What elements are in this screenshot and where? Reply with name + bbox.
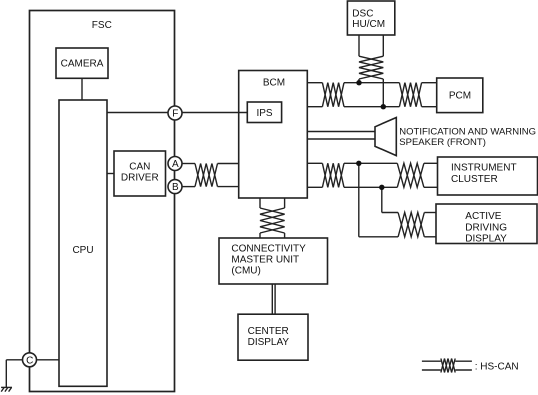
svg-text:BCM: BCM xyxy=(263,78,285,89)
svg-text:PCM: PCM xyxy=(449,91,471,102)
svg-text:A: A xyxy=(172,159,179,170)
svg-text:DRIVER: DRIVER xyxy=(121,173,159,184)
svg-text:CAMERA: CAMERA xyxy=(61,59,104,70)
svg-text:DISPLAY: DISPLAY xyxy=(465,234,507,245)
svg-text:CPU: CPU xyxy=(72,245,93,256)
svg-text:B: B xyxy=(172,182,179,193)
svg-text:CONNECTIVITY: CONNECTIVITY xyxy=(231,244,306,255)
svg-text:HU/CM: HU/CM xyxy=(352,19,385,30)
svg-text:DRIVING: DRIVING xyxy=(465,222,507,233)
svg-text:DISPLAY: DISPLAY xyxy=(248,337,290,348)
svg-text:CLUSTER: CLUSTER xyxy=(451,174,498,185)
svg-text:INSTRUMENT: INSTRUMENT xyxy=(451,162,517,173)
svg-text:SPEAKER (FRONT): SPEAKER (FRONT) xyxy=(399,137,486,148)
svg-text:: HS-CAN: : HS-CAN xyxy=(475,362,519,373)
svg-text:IPS: IPS xyxy=(256,108,272,119)
svg-text:(CMU): (CMU) xyxy=(231,266,260,277)
svg-text:CAN: CAN xyxy=(129,162,150,173)
svg-text:ACTIVE: ACTIVE xyxy=(465,211,501,222)
svg-text:DSC: DSC xyxy=(352,9,373,20)
svg-text:NOTIFICATION AND WARNING: NOTIFICATION AND WARNING xyxy=(399,127,536,138)
svg-text:CENTER: CENTER xyxy=(248,326,289,337)
svg-text:F: F xyxy=(172,109,178,120)
svg-text:C: C xyxy=(26,355,33,366)
svg-text:MASTER UNIT: MASTER UNIT xyxy=(231,255,299,266)
svg-text:FSC: FSC xyxy=(92,20,112,31)
